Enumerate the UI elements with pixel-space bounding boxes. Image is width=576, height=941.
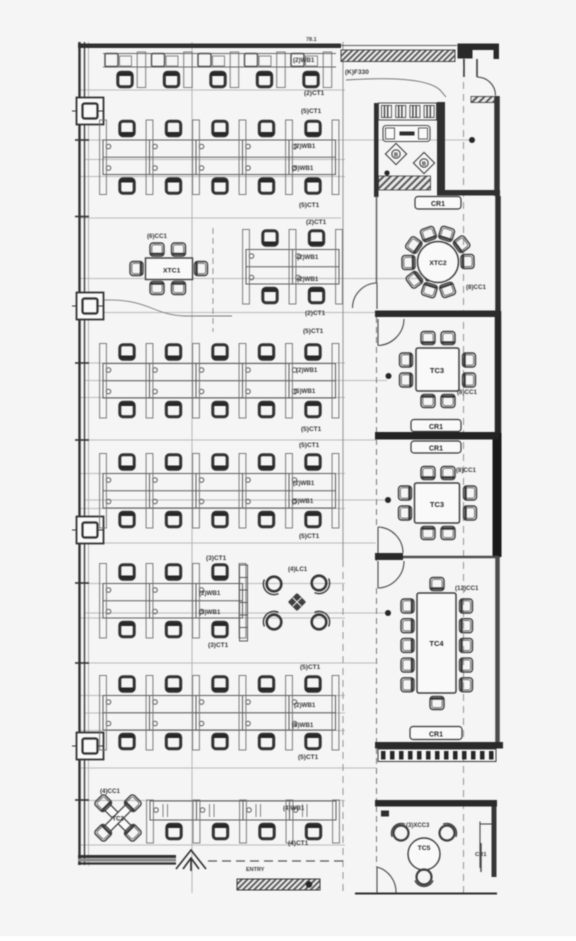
svg-text:ENTRY: ENTRY: [246, 867, 265, 873]
pantry floor symbol B1: [385, 143, 406, 164]
meeting table TC2 (X-shape): [94, 794, 143, 843]
svg-text:B: B: [394, 152, 398, 158]
svg-text:(5)CT1: (5)CT1: [300, 664, 321, 671]
reference leader dots: [384, 137, 475, 616]
svg-text:CR1: CR1: [429, 446, 443, 453]
svg-text:CR1: CR1: [429, 424, 443, 431]
svg-text:TC3: TC3: [430, 500, 444, 509]
svg-text:CR1: CR1: [429, 732, 443, 739]
pantry hatched floor strip: [379, 176, 431, 190]
entrance dashed line: [208, 860, 345, 862]
chair CC1 around XTC2: [405, 270, 424, 289]
XTC2 room left wall: [376, 196, 378, 283]
chair CC1 around XTC2: [404, 236, 423, 255]
svg-text:(5)WB1: (5)WB1: [292, 498, 314, 505]
right wall upper hatch stub: [471, 97, 497, 103]
workstation row D (double): [100, 454, 339, 529]
workstation cluster right of XTC1 (double, 2 units): [243, 230, 343, 305]
svg-text:XTC1: XTC1: [163, 268, 181, 275]
meeting table XTC1 cluster: [130, 243, 208, 295]
meeting table TC5 (round): [408, 838, 440, 870]
lounge chairs LC1: [263, 576, 329, 630]
svg-text:(5)CT1: (5)CT1: [299, 202, 320, 209]
svg-text:(5)CT1: (5)CT1: [301, 108, 322, 115]
svg-text:XTC2: XTC2: [429, 260, 447, 267]
svg-text:(4)LC1: (4)LC1: [288, 566, 308, 573]
svg-text:(2)CT1: (2)CT1: [306, 219, 327, 226]
TC4 bottom wall: [375, 742, 503, 749]
svg-text:(8)CC1: (8)CC1: [457, 389, 477, 396]
svg-text:B: B: [422, 161, 426, 167]
svg-text:(K)F330: (K)F330: [345, 69, 369, 76]
svg-text:(2)CT1: (2)CT1: [305, 310, 326, 317]
mullion band below TC4: [378, 749, 496, 762]
svg-text:(2)WB1: (2)WB1: [199, 590, 221, 597]
corridor dashed partition line: [376, 317, 378, 867]
bottom-right wall stub: [480, 843, 482, 872]
top exterior wall: [78, 44, 341, 49]
svg-text:(3)CT1: (3)CT1: [208, 642, 229, 649]
svg-text:TC2: TC2: [112, 817, 124, 823]
pantry top cabinets: [379, 103, 437, 120]
svg-text:(2)WB1: (2)WB1: [297, 254, 319, 261]
meeting room TC3 (lower): [399, 467, 477, 540]
svg-text:TC3: TC3: [430, 366, 444, 375]
workstation row G (bottom, 4 units): [147, 800, 340, 843]
workstation row C (double): [100, 344, 339, 419]
svg-text:(2)WB1: (2)WB1: [293, 57, 315, 64]
top-right wall block: [458, 44, 500, 60]
wall tick marks: [75, 140, 89, 800]
svg-text:TC4: TC4: [429, 639, 444, 648]
svg-text:(8)CC1: (8)CC1: [456, 467, 476, 474]
TC5 wall marker: [381, 811, 389, 817]
pantry floor symbol B2: [413, 152, 434, 173]
XTC1 zone dashed grid segment: [212, 228, 214, 332]
entrance mat band: [237, 879, 320, 890]
svg-text:(4)CT1: (4)CT1: [288, 840, 309, 847]
svg-text:(2)WB1: (2)WB1: [297, 276, 319, 283]
left exterior wall: [80, 42, 85, 865]
TC4 door: [378, 561, 404, 588]
svg-text:(5)WB1: (5)WB1: [292, 165, 314, 172]
workstation row A (top, single): [103, 54, 336, 68]
chair CC1 around XTC2: [402, 255, 415, 269]
chair CC1 around XTC2: [452, 235, 471, 254]
CR1 tag below mid wall: [411, 441, 461, 453]
chair CC1 around XTC2: [420, 226, 437, 243]
svg-text:(5)CT1: (5)CT1: [299, 533, 320, 540]
wall below pantry: [437, 190, 500, 196]
svg-text:(5)CT1: (5)CT1: [299, 442, 320, 449]
svg-text:(3)XCC3: (3)XCC3: [406, 823, 430, 829]
svg-text:(5)CT1: (5)CT1: [301, 426, 322, 433]
chair CC1 around XTC2: [421, 282, 438, 299]
leader curve from column: [104, 300, 232, 316]
pantry room walls: [374, 102, 445, 197]
TC3 lower door: [378, 527, 403, 553]
TC5 door: [377, 867, 396, 893]
svg-text:(5)WB1: (5)WB1: [294, 388, 316, 395]
bottom-left exterior wall: [78, 857, 176, 864]
svg-text:(2)WB1: (2)WB1: [293, 480, 315, 487]
chair CC1 around XTC2: [438, 226, 455, 243]
svg-text:(3)CT1: (3)CT1: [206, 555, 227, 562]
svg-text:(4)CC1: (4)CC1: [100, 788, 120, 795]
chair CC1 around XTC2: [461, 254, 474, 268]
structural columns: [72, 98, 104, 125]
top-right corridor walls + door: [464, 59, 496, 96]
svg-text:CR1: CR1: [431, 201, 445, 208]
svg-text:(2)CT1: (2)CT1: [304, 90, 325, 97]
svg-text:(6)CC1: (6)CC1: [147, 233, 167, 240]
bottom line under TC5 room: [355, 893, 497, 895]
right exterior wall: [494, 96, 498, 877]
grid lines: [80, 42, 470, 893]
TC3 lower bottom wall: [375, 553, 499, 560]
svg-text:(2)WB1: (2)WB1: [294, 702, 316, 709]
mid wall between TC3 rooms: [375, 432, 499, 440]
svg-text:TC5: TC5: [418, 845, 431, 852]
TC5 chairs: [388, 820, 413, 845]
pantry counter unit: [383, 126, 430, 142]
TC5 closet partition: [480, 822, 492, 869]
svg-text:(2)WB1: (2)WB1: [294, 143, 316, 150]
workstation row F (double): [100, 676, 339, 751]
XTC2 room door: [353, 283, 378, 309]
top hatched wall band: [341, 50, 455, 62]
svg-text:(8)CC1: (8)CC1: [466, 284, 486, 291]
meeting room XTC2 round table: [418, 242, 459, 283]
row E end cabinet: [240, 565, 248, 641]
svg-text:(2)WB1: (2)WB1: [296, 367, 318, 374]
TC5 room top wall: [375, 800, 497, 807]
svg-text:(5)WB1: (5)WB1: [199, 609, 221, 616]
CR1 tag above mid wall: [411, 420, 461, 432]
workstation row B (double): [100, 120, 339, 195]
lounge table MB: [288, 593, 306, 611]
meeting room TC4: [401, 578, 473, 710]
duct leader curve top right: [346, 79, 446, 97]
CR1 tag (pantry): [415, 197, 461, 210]
TC3 upper door: [378, 319, 404, 346]
workstation row E (double, 3 units): [100, 564, 246, 639]
svg-text:(5)CT1: (5)CT1: [298, 754, 319, 761]
chair CC1 around XTC2: [439, 281, 456, 298]
wall between XTC2 and TC3 room: [375, 311, 499, 318]
svg-text:(5)WB1: (5)WB1: [292, 722, 314, 729]
svg-text:78.1: 78.1: [306, 37, 317, 43]
meeting room TC3 (upper): [400, 332, 476, 408]
svg-text:(4)WB1: (4)WB1: [283, 805, 305, 812]
svg-text:(12)CC1: (12)CC1: [455, 585, 479, 592]
CR1 tag (TC4): [410, 727, 462, 740]
svg-text:(5)CT1: (5)CT1: [303, 328, 324, 335]
entrance arrow symbol: [176, 850, 206, 871]
